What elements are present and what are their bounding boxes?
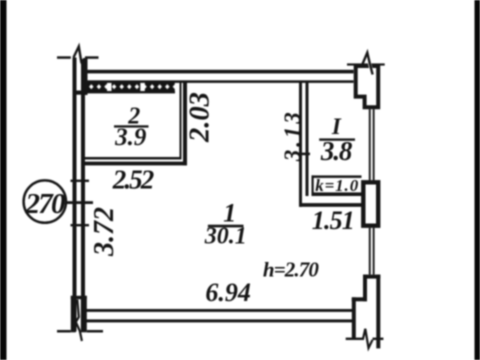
pillar mid-right — [363, 182, 378, 225]
break zigzag top-right stroke — [362, 53, 372, 75]
room2 right wall thin line — [180, 82, 182, 159]
window right lower segment line a — [369, 228, 371, 275]
break tick bottom-right left segment — [346, 338, 364, 340]
roomI bottom wall lower line — [299, 203, 362, 207]
svg-text:30.1: 30.1 — [204, 223, 247, 249]
room divider wall line A — [299, 82, 302, 206]
room2 fraction bar — [114, 125, 149, 127]
k-box top line — [312, 175, 362, 178]
pillar bottom-right step cap — [352, 297, 367, 301]
svg-text:k=1.0: k=1.0 — [315, 176, 359, 195]
svg-text:3.13: 3.13 — [280, 112, 305, 162]
break tick top-left right segment — [85, 56, 99, 59]
partition hatched segment 2 — [112, 82, 141, 91]
room2 right wall thick line — [183, 82, 187, 165]
partition hatched segment 3 — [145, 82, 175, 91]
svg-text:3.9: 3.9 — [114, 124, 147, 151]
svg-text:3.72: 3.72 — [89, 207, 120, 257]
break zigzag bottom-right stroke — [363, 329, 373, 348]
partition bottom line — [88, 91, 176, 93]
room1 fraction bar — [208, 225, 244, 228]
wall bottom-left corner right bar — [81, 296, 87, 333]
apartment number circle — [24, 180, 66, 222]
right letterbox bar — [475, 0, 480, 360]
left letterbox bar — [0, 0, 7, 360]
wall left outer line — [73, 58, 77, 332]
wall top thin line — [88, 80, 354, 83]
bottom wall thin line — [85, 309, 354, 312]
wall top-left corner right bar — [83, 58, 88, 95]
wall bottom-left corner top cap — [71, 296, 87, 299]
pillar bottom-right left upper bar — [363, 275, 367, 302]
window right upper segment line a — [369, 109, 371, 180]
break tick top-left left segment — [57, 56, 71, 59]
svg-text:1.51: 1.51 — [312, 206, 355, 235]
svg-text:2.03: 2.03 — [185, 92, 216, 143]
svg-text:2.52: 2.52 — [112, 165, 155, 195]
svg-text:3.8: 3.8 — [320, 136, 353, 166]
svg-text:h=2.70: h=2.70 — [263, 258, 320, 282]
partition hatched segment 1 — [88, 82, 108, 91]
window right upper segment line b — [373, 109, 375, 180]
break tick top-right — [347, 63, 385, 65]
break zigzag bottom-left stroke — [76, 300, 82, 342]
pillar top-right — [356, 66, 379, 107]
pillar bottom-right left lower bar — [352, 297, 356, 340]
bottom wall thick line — [85, 319, 354, 322]
room divider wall line B — [306, 82, 309, 196]
break tick bottom-left left segment — [57, 330, 71, 333]
leader line from circle — [67, 201, 94, 204]
break tick bottom-right right segment — [373, 338, 384, 340]
wall left inner line — [81, 59, 85, 330]
pillar bottom-right top cap — [363, 275, 380, 279]
wall top thick line — [88, 70, 354, 74]
wall top-left corner bottom cap — [73, 91, 88, 95]
roomI bottom wall upper line — [312, 192, 362, 196]
k-box left line — [312, 175, 314, 196]
room2 bottom wall thin line — [85, 157, 182, 160]
wall bottom-left corner left bar — [71, 296, 76, 333]
break zigzag top-right white slit — [368, 63, 374, 74]
window right lower segment line b — [373, 228, 375, 275]
svg-text:6.94: 6.94 — [205, 278, 251, 307]
window tick left wall lower — [71, 224, 90, 226]
pillar bottom-right right bar — [376, 275, 380, 349]
room2 bottom wall thick line — [85, 162, 187, 166]
svg-text:270: 270 — [25, 188, 66, 220]
break zigzag top-left stroke — [74, 47, 86, 73]
roomI fraction bar — [319, 138, 355, 140]
room divider tick — [298, 153, 311, 156]
break tick bottom-left right segment — [87, 330, 103, 333]
window tick left wall upper — [71, 180, 90, 182]
